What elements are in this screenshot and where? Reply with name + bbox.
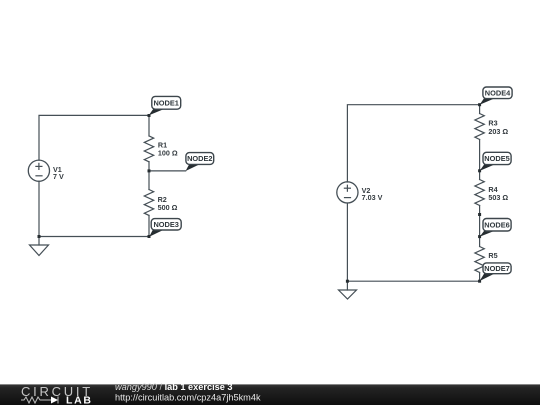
svg-text:http://circuitlab.com/cpz4a7jh: http://circuitlab.com/cpz4a7jh5km4k — [115, 392, 261, 402]
svg-text:500 Ω: 500 Ω — [158, 203, 178, 212]
svg-text:NODE4: NODE4 — [485, 89, 511, 98]
svg-text:7.03 V: 7.03 V — [362, 193, 383, 202]
svg-text:NODE2: NODE2 — [187, 154, 212, 163]
svg-text:R5: R5 — [488, 251, 497, 260]
svg-text:NODE6: NODE6 — [484, 221, 509, 230]
svg-text:7 V: 7 V — [53, 172, 64, 181]
svg-text:503 Ω: 503 Ω — [488, 193, 508, 202]
svg-text:LAB: LAB — [66, 394, 91, 405]
svg-text:203 Ω: 203 Ω — [488, 127, 508, 136]
svg-text:NODE1: NODE1 — [153, 99, 178, 108]
svg-text:wangy990 / lab 1 exercise 3: wangy990 / lab 1 exercise 3 — [115, 382, 233, 392]
svg-text:NODE5: NODE5 — [484, 154, 509, 163]
svg-text:100 Ω: 100 Ω — [158, 149, 178, 158]
svg-text:NODE7: NODE7 — [484, 264, 509, 273]
svg-text:NODE3: NODE3 — [153, 220, 178, 229]
